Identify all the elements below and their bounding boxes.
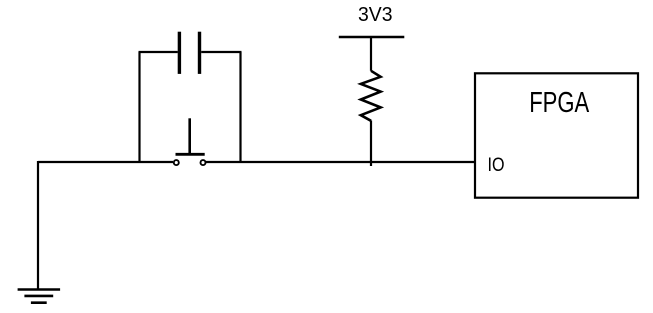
svg-text:IO: IO (488, 154, 505, 176)
svg-text:FPGA: FPGA (529, 87, 589, 119)
svg-text:3V3: 3V3 (358, 3, 393, 26)
